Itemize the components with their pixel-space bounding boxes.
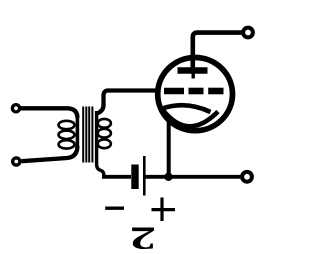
filament upper arc — [163, 105, 211, 112]
wire (transformer primary spine) — [76, 114, 80, 149]
battery plus sign — [152, 198, 176, 222]
wire (secondary bottom to battery) — [102, 175, 131, 179]
transformer secondary coil loop 2 — [98, 129, 111, 138]
wire (battery to junction to output terminal) — [146, 175, 241, 179]
grid dash 3 — [208, 88, 223, 95]
battery minus sign — [105, 206, 124, 209]
grid dash 1 — [164, 88, 184, 95]
wire (primary bottom lead) — [22, 146, 78, 161]
transformer primary coil loop 3 — [59, 140, 75, 148]
transformer core line 1 — [82, 107, 84, 163]
plate lead stub — [191, 70, 194, 79]
terminal (primary input top) — [12, 105, 19, 112]
transformer core line 4 — [91, 107, 93, 163]
wire (filament lead down from tube) — [167, 115, 171, 176]
transformer primary coil loop 2 — [59, 131, 75, 139]
filament lower arc — [163, 110, 219, 127]
battery negative plate (short thick) — [131, 165, 138, 190]
transformer core line 2 — [85, 107, 87, 163]
terminal (plate output top right) — [243, 28, 253, 38]
wire (plate lead up and to output terminal) — [193, 33, 242, 69]
terminal (output bottom right) — [242, 172, 252, 182]
triode tube envelope — [158, 58, 233, 131]
grid dash 2 — [189, 88, 204, 95]
battery value label 2 (rotated) — [118, 225, 168, 252]
wire (transformer secondary spine) — [97, 111, 104, 175]
transformer core line 3 — [88, 107, 90, 163]
transformer primary coil loop 1 — [59, 121, 75, 129]
terminal (primary input bottom) — [13, 158, 20, 165]
transformer secondary coil loop 1 — [98, 119, 111, 128]
plate (anode bar) — [178, 67, 208, 73]
wire (grid lead from secondary to tube) — [97, 91, 157, 114]
wire (primary top lead) — [21, 108, 78, 118]
junction (filament/cathode node) — [164, 173, 172, 181]
battery positive plate (long thin) — [143, 156, 146, 196]
transformer secondary coil loop 3 — [98, 139, 111, 148]
